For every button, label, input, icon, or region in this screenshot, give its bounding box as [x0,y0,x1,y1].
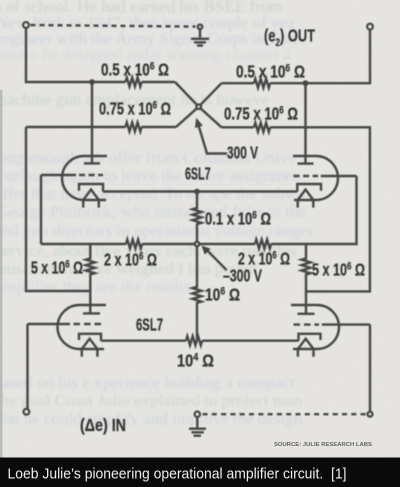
terminal: (e2) OUT post [367,24,373,30]
triode V2b 6SL7 lower-right: envelope [291,305,339,349]
terminal: left output post [23,22,29,28]
resistor 5x10^6 ohm left (bias row to lower-left plate) [86,244,95,313]
svg-text:0.5 x 106 Ω: 0.5 x 106 Ω [236,62,305,82]
wire: (de) IN terminal riser [26,324,28,409]
wire: right bias row and rise to upper-right grid [271,176,356,244]
svg-text:SOURCE: JULIE RESEARCH LABS: SOURCE: JULIE RESEARCH LABS [274,442,372,448]
triode V1a plate lead from junction A [91,82,93,163]
resistor 2x10^6 ohm left [126,240,142,249]
wire: X diagonal upper-left [175,82,199,107]
triode V2a 6SL7 lower-left: envelope [58,305,106,349]
resistor 0.5x10^6 ohm left [126,78,142,87]
arrowhead +300V [196,119,202,127]
triode V2a plate bar [83,312,100,314]
arrow to -300V node [207,250,227,270]
ground (bottom) stem and bars [196,417,198,428]
svg-text:that he could amplify and impr: that he could amplify and improve the de… [0,409,303,428]
terminal: (de) IN post [24,409,30,415]
wire: common cathode bus (lower pair) right half [202,340,298,342]
triode V2b plate bar [298,313,315,315]
svg-text:5 x 106 Ω: 5 x 106 Ω [31,258,83,278]
junction B (right plate/output) [303,80,309,86]
wire: dashed ground link bottom [203,413,368,415]
wire: right 0.75M row to resistor [222,126,255,128]
triode V1a grid lead (solid) [41,174,76,176]
triode V1b grid lead (solid) [321,175,357,177]
wire: right feedback drop to lower-right plate [270,127,370,291]
triode V2b grid lead (solid) to ground link [322,323,370,325]
wire: X diagonal upper-right [199,83,222,107]
wire: right 0.5M row to resistor [222,82,255,84]
triode V2b cathode bracket [299,334,321,341]
triode V1b filament [298,190,314,201]
resistor 0.75x10^6 ohm right [254,123,270,132]
wire: 0.75M left to X [142,126,176,128]
resistor 2x10^6 ohm right [255,240,271,249]
svg-text:0.1 x 106 Ω: 0.1 x 106 Ω [205,209,271,229]
wire: left output branch (terminal down and right to plate junction row) [26,28,126,82]
triode V2b filament [298,339,314,349]
resistor 0.1x10^6 ohm (cathode to -300V node) [193,192,202,242]
triode V1b heater pins [298,200,314,208]
wire: dashed link from left output post to top ground [31,25,196,27]
triode V2b heater pins [298,349,314,357]
triode V2b grid dashes [294,323,320,325]
triode V1b grid dashes [294,175,319,177]
svg-text:6SL7: 6SL7 [185,164,211,184]
node: +300V crossing [196,104,201,109]
svg-text:6SL7: 6SL7 [136,315,163,335]
ground (top) stem and bars [199,29,201,38]
svg-text:5 x 106 Ω: 5 x 106 Ω [312,260,365,280]
triode V2a grid lead (solid) from IN [28,323,71,325]
wire: X diagonal lower-right [199,107,222,128]
triode V1a filament [83,190,99,201]
triode V2a grid dashes [74,323,104,325]
wire: 2M left to -300V node [142,243,195,245]
wire: common cathode bus (upper pair) [103,190,297,192]
svg-text:2 x 106 Ω: 2 x 106 Ω [104,250,157,270]
triode V2a heater pins [82,349,98,357]
bleed-through text from reverse page (decorative texture) [0,0,313,428]
triode V1b plate bar [298,162,314,164]
svg-text:offer that have accepted. To e: offer that have accepted. To escape the … [0,184,305,203]
wire: common cathode bus (lower pair) left half [101,340,186,342]
svg-text:0.75 x 106 Ω: 0.75 x 106 Ω [99,99,171,119]
resistor 10^6 ohm (-300V node to cathode bus) [193,246,202,340]
triode V1b cathode bracket [297,184,321,192]
arrowhead -300V [202,246,209,253]
terminal: right grid ground link post [368,412,373,417]
triode V1a plate bar [84,162,100,164]
wire: -300V node to 2M right [199,243,255,245]
triode V1a grid dashes [79,174,103,176]
wire: upper-left grid bias drop [40,175,42,244]
terminal: top ground post [198,25,202,29]
svg-text:0.5 x 106 Ω: 0.5 x 106 Ω [101,60,169,80]
resistor 10^4 ohm (between cathodes) [186,336,202,345]
svg-text:300 V: 300 V [227,143,258,163]
scanner page edge (left) [0,90,2,458]
caption bar [0,458,400,487]
junction C (upper cathode bus) [194,189,200,195]
triode V1a cathode bracket [79,184,103,192]
junction A (left plate/output) [89,79,95,85]
wire: X diagonal lower-left [176,107,199,127]
wire: left bias row to 2M resistor [41,243,126,245]
triode V1b plate lead [304,83,306,163]
wire: right grid drop to dashed ground link [369,325,371,412]
resistor 0.5x10^6 ohm right [254,79,270,88]
svg-text:(Δe) IN: (Δe) IN [80,415,126,435]
wire: 0.5M left to +300V cross [142,81,175,83]
svg-text:amplifier they are the results: amplifier they are the results [0,277,190,296]
wire: right plate row to (e2) OUT terminal [270,29,370,83]
wire: left feedback drop to lower-left plate [26,127,89,291]
svg-text:0.75 x 106 Ω: 0.75 x 106 Ω [224,104,298,124]
triode V1b 6SL7 upper-right: envelope [293,156,338,200]
arrow to +300V node [199,127,227,154]
triode V1a 6SL7 upper-left: envelope [62,156,107,200]
resistor 0.75x10^6 ohm left [126,123,142,132]
svg-text:the gual Coast Julie explained: the gual Coast Julie explained to projec… [0,391,303,410]
svg-text:Loeb Julie’s pioneering operat: Loeb Julie’s pioneering operational ampl… [8,466,347,483]
svg-text:based on his e xperience build: based on his e xperience building a comp… [0,373,295,392]
triode V2a filament [82,339,98,349]
node: -300V [195,242,199,246]
triode V1a heater pins [83,200,99,208]
svg-text:–300 V: –300 V [223,266,262,286]
triode V2a cathode bracket [79,334,101,341]
wire: left 0.75M row [26,126,126,128]
resistor 5x10^6 ohm right (bias row to lower-right plate) [302,244,311,314]
svg-text:(e2) OUT: (e2) OUT [264,26,315,50]
terminal: bottom ground post [195,412,200,417]
